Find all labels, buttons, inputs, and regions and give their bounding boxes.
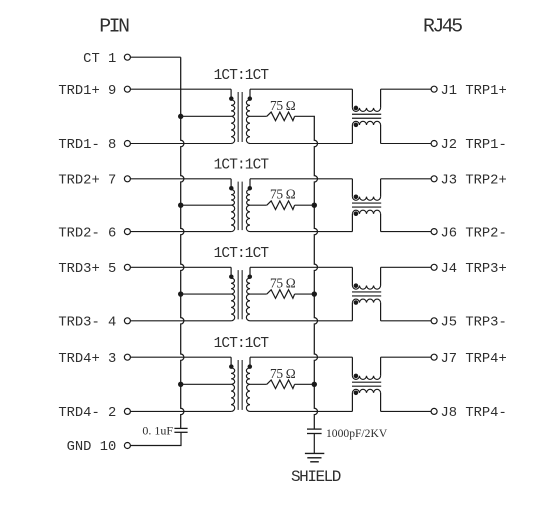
junction center-tap bus channel 3 (178, 291, 183, 296)
svg-text:J3 TRP2+: J3 TRP2+ (441, 174, 507, 189)
svg-text:TRD3+ 5: TRD3+ 5 (58, 262, 116, 277)
pin J1 TRP1+ (431, 86, 437, 92)
wire choke L3 to J pin top (381, 266, 432, 268)
wire T2 secondary top to choke L2 (250, 178, 352, 180)
wire choke L3 to J pin bottom (381, 320, 432, 322)
wire T2 secondary center tap to R2 (250, 204, 267, 206)
svg-text:PIN: PIN (99, 16, 129, 38)
svg-text:J5 TRP3-: J5 TRP3- (441, 316, 507, 331)
wire T4 primary center tap to bus (181, 383, 231, 385)
pin TRD4- 2 (124, 408, 130, 414)
wire choke L2 to J pin bottom (381, 231, 432, 233)
pin TRD3- 4 (124, 318, 130, 324)
svg-text:GND 10: GND 10 (67, 440, 117, 455)
svg-text:J7 TRP4+: J7 TRP4+ (441, 352, 507, 367)
pin J4 TRP3+ (431, 264, 437, 270)
resistor R1 (267, 112, 295, 121)
svg-text:TRD2+ 7: TRD2+ 7 (58, 174, 116, 189)
pin TRD2+ 7 (124, 176, 130, 182)
wire T3 secondary center tap to R3 (250, 293, 267, 295)
svg-text:75 Ω: 75 Ω (270, 276, 296, 291)
junction center-tap bus channel 2 (178, 203, 183, 208)
common-mode choke L1 (352, 89, 381, 143)
svg-text:TRD4- 2: TRD4- 2 (58, 406, 116, 421)
svg-text:0. 1uF: 0. 1uF (142, 423, 173, 437)
svg-text:TRD2- 6: TRD2- 6 (58, 226, 116, 241)
transformer T3 (229, 267, 252, 321)
svg-text:CT 1: CT 1 (83, 52, 116, 67)
transformer T4 (229, 357, 252, 411)
svg-text:TRD1+ 9: TRD1+ 9 (58, 84, 116, 99)
svg-text:J2 TRP1-: J2 TRP1- (441, 138, 507, 153)
wire C1 to GND pin (130, 432, 181, 445)
wire choke L4 to J pin top (381, 356, 432, 358)
wire TRD2+ pin to T2 primary top (130, 178, 231, 180)
wire T4 secondary bottom to choke L4 (250, 410, 352, 412)
wire T2 secondary bottom to choke L2 (250, 231, 352, 233)
wire TRD2- pin to T2 primary bottom (130, 231, 231, 233)
wire CT pin to center-tap bus (130, 56, 180, 58)
wire T3 secondary top to choke L3 (250, 266, 352, 268)
svg-text:75 Ω: 75 Ω (270, 366, 296, 381)
capacitor C2 1000pF/2KV (307, 429, 322, 433)
wire C2 to shield ground (313, 434, 315, 454)
wire T1 primary center tap to bus (181, 115, 231, 117)
svg-text:J1 TRP1+: J1 TRP1+ (441, 84, 507, 99)
wire choke L2 to J pin top (381, 178, 432, 180)
pin TRD3+ 5 (124, 264, 130, 270)
svg-text:1CT:1CT: 1CT:1CT (214, 68, 270, 84)
junction resistor bus channel 3 (312, 291, 317, 296)
wire T1 secondary center tap to R1 (250, 115, 267, 117)
svg-text:1000pF/2KV: 1000pF/2KV (326, 427, 388, 440)
resistor R2 (267, 201, 295, 210)
pin J3 TRP2+ (431, 176, 437, 182)
pin TRD2- 6 (124, 229, 130, 235)
svg-text:TRD4+ 3: TRD4+ 3 (58, 352, 116, 367)
wire R3 to resistor bus (295, 293, 315, 295)
wire R4 to resistor bus (295, 383, 315, 385)
ground SHIELD symbol (305, 453, 324, 461)
svg-text:1CT:1CT: 1CT:1CT (214, 336, 270, 352)
junction center-tap bus channel 1 (178, 114, 183, 119)
wire TRD1- pin to T1 primary bottom (130, 143, 231, 145)
common-mode choke L4 (352, 357, 381, 411)
svg-text:J6 TRP2-: J6 TRP2- (441, 226, 507, 241)
wire choke L1 to J pin top (381, 88, 432, 90)
transformer T2 (229, 179, 252, 232)
svg-text:TRD3- 4: TRD3- 4 (58, 316, 116, 331)
wire T2 primary center tap to bus (181, 204, 231, 206)
junction center-tap bus channel 4 (178, 382, 183, 387)
transformer T1 (229, 89, 252, 143)
svg-text:RJ45: RJ45 (423, 16, 462, 38)
pin J7 TRP4+ (431, 354, 437, 360)
svg-text:SHIELD: SHIELD (291, 468, 341, 486)
svg-text:1CT:1CT: 1CT:1CT (214, 157, 270, 173)
wire T3 primary center tap to bus (181, 293, 231, 295)
wire choke L4 to J pin bottom (381, 410, 432, 412)
svg-text:75 Ω: 75 Ω (270, 98, 296, 113)
pin GND 10 (124, 443, 130, 449)
capacitor C1 0.1uF (174, 428, 187, 432)
svg-text:75 Ω: 75 Ω (270, 187, 296, 202)
wire R1 to resistor bus (295, 115, 315, 117)
wire T3 secondary bottom to choke L3 (250, 320, 352, 322)
common-mode choke L3 (352, 267, 381, 321)
common-mode choke L2 (352, 179, 381, 232)
junction resistor bus channel 4 (312, 382, 317, 387)
pin J5 TRP3- (431, 318, 437, 324)
resistor R3 (267, 290, 295, 299)
wire TRD3+ pin to T3 primary top (130, 266, 231, 268)
pin J2 TRP1- (431, 141, 437, 147)
wire T1 secondary bottom to choke L1 (250, 143, 352, 145)
wire R2 to resistor bus (295, 204, 315, 206)
svg-text:1CT:1CT: 1CT:1CT (214, 246, 270, 262)
svg-text:J8 TRP4-: J8 TRP4- (441, 406, 507, 421)
wire T4 secondary top to choke L4 (250, 356, 352, 358)
wire center-tap bus (CT net, vertical) (181, 57, 184, 428)
resistor R4 (267, 380, 295, 389)
wire TRD3- pin to T3 primary bottom (130, 320, 231, 322)
pin J6 TRP2- (431, 229, 437, 235)
wire resistor common bus to shield cap (vertical) (314, 116, 317, 429)
svg-text:J4 TRP3+: J4 TRP3+ (441, 262, 507, 277)
pin TRD1+ 9 (124, 86, 130, 92)
junction resistor bus channel 2 (312, 203, 317, 208)
svg-text:TRD1- 8: TRD1- 8 (58, 138, 116, 153)
wire T1 secondary top to choke L1 (250, 88, 352, 90)
wire TRD4- pin to T4 primary bottom (130, 410, 231, 412)
pin CT 1 (124, 54, 130, 60)
wire choke L1 to J pin bottom (381, 143, 432, 145)
pin TRD1- 8 (124, 141, 130, 147)
pin J8 TRP4- (431, 408, 437, 414)
wire T4 secondary center tap to R4 (250, 383, 267, 385)
wire TRD4+ pin to T4 primary top (130, 356, 231, 358)
pin TRD4+ 3 (124, 354, 130, 360)
wire TRD1+ pin to T1 primary top (130, 88, 231, 90)
